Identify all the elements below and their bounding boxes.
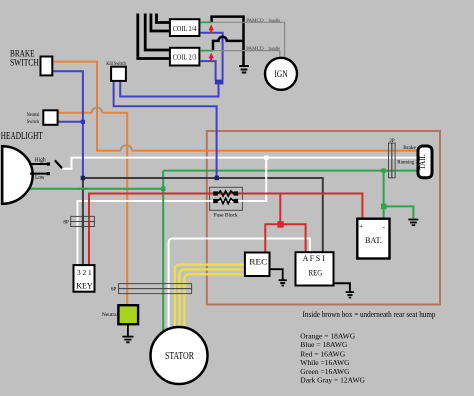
- wire: white headlight switch -> tail: [63, 158, 418, 169]
- svg-text:bundle: bundle: [269, 18, 281, 24]
- high beam contact: [29, 163, 48, 165]
- ground (REG): [334, 283, 350, 291]
- wire: white stator -> REG: [169, 239, 310, 330]
- svg-text:KEY: KEY: [76, 282, 92, 291]
- fuse F2 on white feed: [213, 198, 238, 203]
- connector 2P: [389, 143, 396, 178]
- svg-text:bundle: bundle: [269, 46, 281, 52]
- wire: green long run -> tail (Running): [163, 170, 418, 172]
- svg-text:REG: REG: [309, 268, 323, 277]
- svg-text:REC: REC: [249, 257, 267, 267]
- svg-text:2P: 2P: [389, 139, 395, 144]
- wire: green overlap patch at key column: [79, 188, 88, 190]
- ignition key switch box: [74, 265, 95, 292]
- wire: blue brake -> key line junctions: [52, 71, 83, 178]
- wire: yellow stator 2: [179, 269, 245, 327]
- brake switch box: [41, 57, 53, 76]
- svg-text:COIL 1/4: COIL 1/4: [173, 24, 197, 33]
- svg-text:Green =16AWG: Green =16AWG: [300, 367, 350, 376]
- REC box: [245, 253, 270, 277]
- low beam contact: [30, 173, 48, 175]
- node: green junction at BAT/ground: [381, 204, 387, 210]
- wire: dark gray key -> REG: [83, 178, 323, 265]
- wire: spark plug lead 4 to COIL 1/4: [157, 14, 170, 23]
- headlight lamp: [2, 146, 32, 203]
- node: green junction at tail feed: [381, 168, 385, 172]
- coil 1/4 box: [170, 19, 200, 36]
- wire: green headlight: [28, 188, 163, 190]
- svg-text:Switch: Switch: [27, 119, 40, 125]
- ground (REC): [270, 269, 283, 280]
- svg-text:Dark Gray = 12AWG: Dark Gray = 12AWG: [300, 376, 365, 385]
- wire: red T branch to REC/REG: [265, 194, 305, 253]
- wire: white drop overlap patch: [265, 165, 267, 183]
- svg-text:Fuse Block: Fuse Block: [214, 212, 238, 218]
- svg-text:High: High: [35, 156, 47, 163]
- wire: spark plug lead 2 to COIL 2/3: [145, 14, 170, 51]
- fuse block outline: [210, 187, 243, 210]
- red arrow marker at COIL 1/4 terminal: [209, 24, 214, 33]
- svg-text:+: +: [359, 221, 363, 230]
- ground (PAMCO bundle): [239, 66, 249, 73]
- wire: blue neutral switch: [58, 121, 83, 123]
- svg-text:While =16AWG: While =16AWG: [300, 358, 350, 367]
- wire: spark plug lead 1 to COIL 2/3: [138, 14, 170, 59]
- connector 6P: [119, 284, 192, 294]
- svg-text:TAIL: TAIL: [418, 154, 427, 170]
- fuse F1 on red feed: [213, 191, 238, 196]
- svg-text:PAMCO: PAMCO: [246, 46, 264, 52]
- IGN circle: [265, 58, 297, 90]
- svg-text:Neutral: Neutral: [102, 312, 118, 318]
- wire: gray PAMCO bundle 2 to IGN: [213, 51, 280, 59]
- coil 2/3 box: [170, 48, 200, 66]
- svg-text:COIL 2/3: COIL 2/3: [173, 53, 197, 62]
- svg-text:3 2 1: 3 2 1: [77, 268, 92, 277]
- node: white junction on headlight wire: [264, 156, 268, 160]
- wire: blue square -> kill switch: [120, 81, 218, 97]
- wire: gray PAMCO bundle 1 to IGN: [212, 22, 285, 57]
- red arrow marker at COIL 2/3 terminal: [209, 53, 214, 61]
- stator circle: [151, 327, 208, 384]
- wire: green stator vertical: [162, 171, 164, 332]
- TAIL light: [418, 146, 432, 178]
- node: blue junction of coil wires: [215, 80, 224, 85]
- wire: green pigtail COIL 1/4: [201, 21, 212, 23]
- svg-text:A F S I: A F S I: [303, 254, 325, 263]
- svg-text:BAT.: BAT.: [365, 235, 382, 245]
- neutral switch box: [43, 110, 57, 125]
- REG box: [296, 252, 334, 285]
- wire: red main key->fuse->BAT: [89, 194, 362, 266]
- svg-text:Red = 16AWG: Red = 16AWG: [300, 349, 345, 358]
- wire: black PAMCO bundle wire from COIL 1/4 to ground: [212, 17, 244, 66]
- node: blue junction brake/neutral switch: [81, 120, 85, 124]
- connector 8P: [71, 216, 95, 226]
- neutral indicator green box: [118, 305, 138, 324]
- svg-text:8P: 8P: [63, 220, 69, 225]
- svg-text:Inside brown box = underneath: Inside brown box = underneath rear seat …: [303, 310, 436, 319]
- node: junction kill-switch blue to dark-gray run: [215, 176, 219, 180]
- svg-text:PAMCO: PAMCO: [246, 18, 264, 24]
- svg-text:Low: Low: [35, 174, 45, 181]
- BAT box: [357, 219, 389, 259]
- wire: green drop to BAT: [383, 171, 385, 219]
- wire: black PAMCO bundle wire from COIL 2/3 (hump over blue): [213, 37, 244, 51]
- wire: orange neutral -> down to neutral bulb: [58, 113, 128, 305]
- node: red junction REC/REG feed: [277, 221, 283, 227]
- svg-text:STATOR: STATOR: [165, 351, 194, 362]
- wire: blue coil2/3: [201, 61, 216, 80]
- svg-text:Blue = 18AWG: Blue = 18AWG: [300, 340, 348, 349]
- ground (battery green wire): [408, 220, 418, 226]
- svg-text:Brake: Brake: [403, 145, 416, 151]
- hi/low switch blade: [55, 160, 62, 168]
- wire: yellow stator 1: [175, 265, 245, 328]
- svg-text:IGN: IGN: [274, 69, 288, 79]
- svg-text:Neutral: Neutral: [27, 112, 40, 118]
- wire: spark plug lead 3 to COIL 1/4: [151, 14, 170, 32]
- wire: orange brake -> tail (Brake): [52, 62, 418, 151]
- node: green junction headlight/stator: [161, 187, 165, 191]
- node: junction blue-to-dark-gray at key column: [81, 176, 85, 180]
- brown box border (under-seat area): [207, 131, 440, 305]
- wire: green pigtail COIL 2/3: [201, 50, 213, 52]
- svg-text:SWITCH: SWITCH: [10, 58, 39, 69]
- svg-text:Orange = 18AWG: Orange = 18AWG: [300, 331, 355, 340]
- svg-text:Running: Running: [397, 159, 414, 165]
- svg-text:Kill Switch: Kill Switch: [106, 61, 126, 67]
- wire: blue kill -> ignition junction: [114, 81, 217, 177]
- wire: dark gray over 8P patch: [82, 214, 84, 229]
- wire: blue coil1/4: [201, 33, 223, 80]
- kill switch box: [111, 67, 126, 81]
- svg-text:6P: 6P: [111, 288, 117, 293]
- svg-text:HEADLIGHT: HEADLIGHT: [1, 131, 43, 142]
- wire: white drop to key through fuse2: [78, 158, 267, 266]
- wire: green to ground: [384, 206, 414, 218]
- wire: yellow stator 3: [184, 274, 245, 327]
- ground (neutral indicator): [127, 324, 129, 336]
